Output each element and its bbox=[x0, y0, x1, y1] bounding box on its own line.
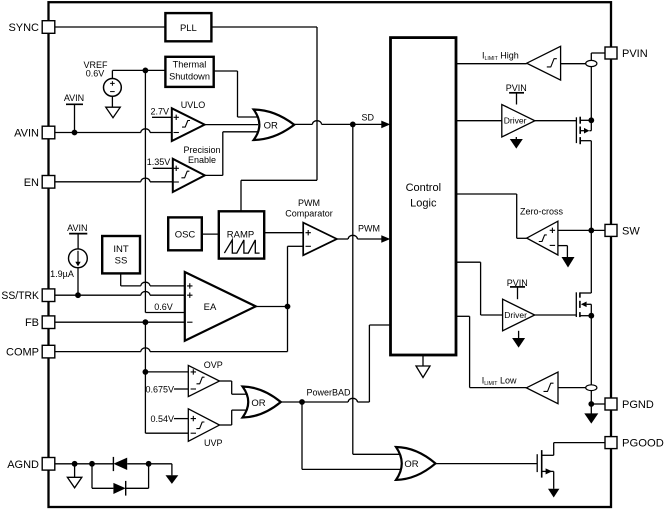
svg-text:0.6V: 0.6V bbox=[86, 69, 105, 79]
svg-text:SS: SS bbox=[115, 256, 128, 267]
svg-text:OR: OR bbox=[404, 459, 418, 470]
svg-text:PWM: PWM bbox=[358, 223, 380, 233]
svg-text:COMP: COMP bbox=[6, 347, 39, 359]
svg-text:OVP: OVP bbox=[204, 360, 223, 370]
svg-text:PVIN: PVIN bbox=[506, 83, 527, 93]
svg-text:UVP: UVP bbox=[204, 438, 223, 448]
svg-text:Driver: Driver bbox=[504, 310, 527, 320]
svg-text:EN: EN bbox=[24, 177, 39, 189]
svg-text:1.35V: 1.35V bbox=[147, 157, 171, 167]
svg-text:0.54V: 0.54V bbox=[150, 414, 174, 424]
svg-text:SW: SW bbox=[622, 225, 640, 237]
svg-text:Shutdown: Shutdown bbox=[169, 72, 210, 82]
svg-text:INT: INT bbox=[113, 244, 129, 255]
svg-text:OR: OR bbox=[251, 398, 265, 409]
svg-text:Precision: Precision bbox=[183, 145, 220, 155]
svg-text:Enable: Enable bbox=[188, 155, 216, 165]
svg-text:PLL: PLL bbox=[180, 23, 197, 34]
svg-text:OSC: OSC bbox=[175, 230, 196, 241]
svg-text:PVIN: PVIN bbox=[507, 278, 528, 288]
svg-text:SYNC: SYNC bbox=[8, 22, 39, 34]
svg-text:AGND: AGND bbox=[7, 459, 39, 471]
svg-text:Control: Control bbox=[406, 182, 441, 194]
svg-text:2.7V: 2.7V bbox=[151, 106, 170, 116]
svg-text:FB: FB bbox=[25, 317, 39, 329]
svg-text:PGND: PGND bbox=[622, 399, 654, 411]
svg-text:PGOOD: PGOOD bbox=[622, 438, 664, 450]
svg-text:SS/TRK: SS/TRK bbox=[1, 290, 39, 302]
svg-text:Comparator: Comparator bbox=[285, 208, 333, 218]
svg-text:AVIN: AVIN bbox=[67, 223, 87, 233]
svg-text:PWM: PWM bbox=[298, 198, 320, 208]
svg-text:Logic: Logic bbox=[410, 197, 437, 209]
svg-text:Driver: Driver bbox=[504, 116, 527, 126]
svg-text:AVIN: AVIN bbox=[64, 93, 84, 103]
svg-text:UVLO: UVLO bbox=[181, 100, 206, 110]
svg-text:0.675V: 0.675V bbox=[145, 385, 174, 395]
svg-text:1.9µA: 1.9µA bbox=[50, 269, 74, 279]
svg-text:SD: SD bbox=[362, 112, 375, 122]
svg-text:RAMP: RAMP bbox=[227, 229, 254, 240]
svg-text:AVIN: AVIN bbox=[14, 128, 39, 140]
svg-text:PVIN: PVIN bbox=[622, 48, 648, 60]
svg-text:PowerBAD: PowerBAD bbox=[307, 388, 352, 398]
svg-text:OR: OR bbox=[264, 121, 278, 132]
svg-text:EA: EA bbox=[204, 302, 217, 313]
svg-text:Thermal: Thermal bbox=[173, 60, 207, 70]
svg-text:Zero-cross: Zero-cross bbox=[520, 206, 564, 216]
svg-text:0.6V: 0.6V bbox=[154, 302, 173, 312]
